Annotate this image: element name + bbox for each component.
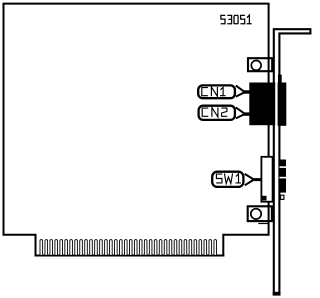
part number 53051 (221, 15, 252, 24)
bracket bottom cap (273, 292, 281, 296)
screw hole top (251, 61, 261, 71)
label CN2 box (199, 106, 235, 120)
DIP levers through bracket (280, 160, 287, 193)
card outline (4, 4, 269, 256)
notch line below bottom screw tab (258, 223, 269, 224)
screw tab top (248, 58, 272, 71)
connector external shell (278, 75, 287, 126)
label CN1 box (198, 85, 235, 98)
connector CN1/CN2 block (249, 83, 275, 126)
arrow SW1 (245, 174, 261, 185)
label SW1 box (212, 172, 243, 187)
edge connector teeth (40, 240, 217, 255)
screw tab bottom (248, 206, 272, 221)
screw hole bottom (251, 209, 261, 219)
bracket (274, 29, 311, 294)
small outlined square below DIP (281, 195, 284, 199)
arrow CN1 (236, 86, 250, 97)
switch detent (261, 196, 266, 201)
arrow CN2 (236, 107, 251, 118)
bottom edge line under teeth (35, 255, 225, 257)
switch SW1 body (261, 157, 272, 202)
